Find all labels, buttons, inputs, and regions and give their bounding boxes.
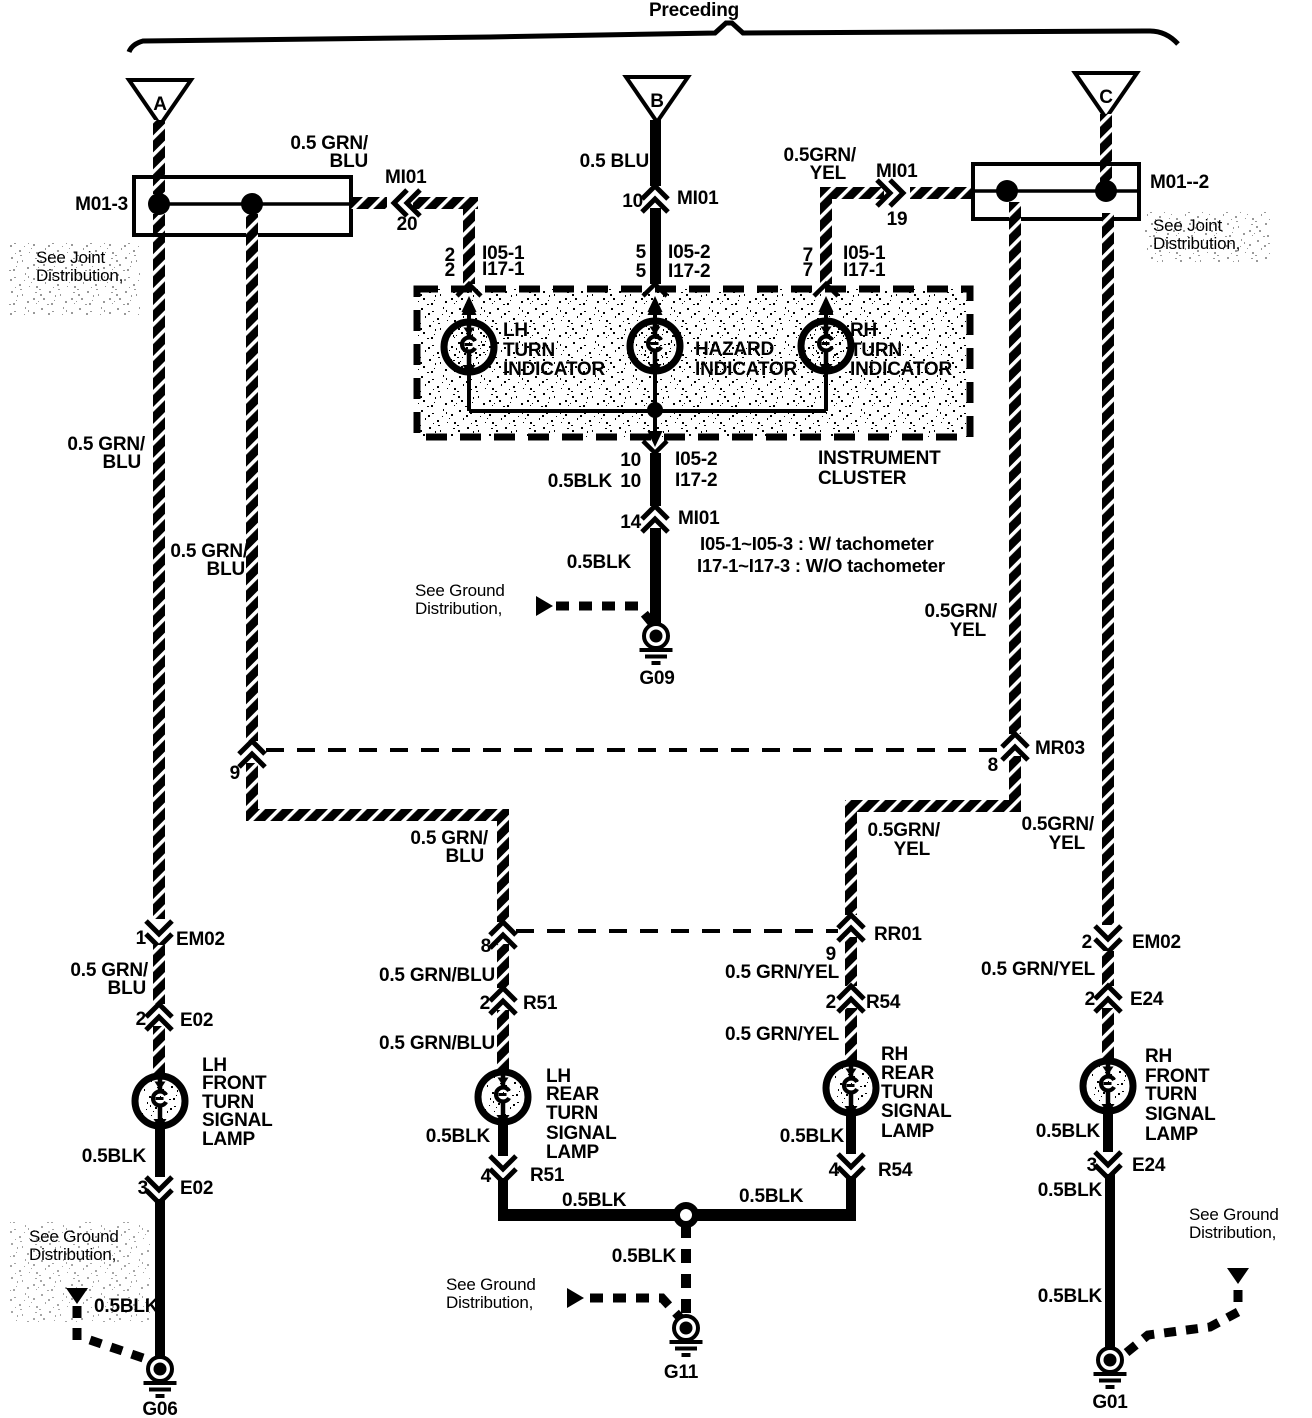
svg-text:R51: R51 <box>523 993 558 1014</box>
connector EM02 pin 2 chevrons <box>1095 926 1121 952</box>
svg-text:10: 10 <box>622 191 643 212</box>
wire horizontal corner to branch 2 <box>246 809 509 821</box>
connector MI01 pin 14 chevrons <box>642 506 668 532</box>
svg-text:LAMP: LAMP <box>1145 1124 1199 1145</box>
wire down to RR01 <box>845 800 857 915</box>
svg-text:0.5BLK: 0.5BLK <box>612 1246 677 1267</box>
lamp RH FRONT TURN SIGNAL LAMP <box>1083 1061 1133 1114</box>
svg-text:C: C <box>1099 87 1113 108</box>
junction dot inside cluster <box>647 402 663 418</box>
svg-text:19: 19 <box>887 209 908 230</box>
svg-text:M01-3: M01-3 <box>75 194 128 215</box>
wire 0.5BLK lamp to E02 pin 3 <box>155 1126 165 1177</box>
svg-text:BLU: BLU <box>207 559 245 580</box>
wire 0.5BLK to ground G01 <box>1105 1174 1115 1348</box>
branch 2: wire below chevron 8 <box>497 944 509 988</box>
connector flare into cluster at A branch <box>457 284 481 296</box>
svg-text:TURN: TURN <box>1145 1084 1197 1105</box>
svg-text:0.5BLK: 0.5BLK <box>82 1146 147 1167</box>
svg-text:Distribution,: Distribution, <box>36 266 123 285</box>
svg-text:2: 2 <box>445 260 455 281</box>
node dot M01--2 b <box>1095 180 1117 202</box>
svg-text:0.5BLK: 0.5BLK <box>548 471 613 492</box>
svg-text:See Ground: See Ground <box>446 1275 536 1294</box>
svg-text:TURN: TURN <box>881 1082 933 1103</box>
svg-text:I05-2: I05-2 <box>675 449 717 470</box>
ground G01 <box>1094 1348 1127 1387</box>
wire vertical down to instrument cluster LH turn indicator <box>463 197 475 284</box>
connector EM02 pin 1 chevrons <box>146 921 172 947</box>
svg-text:I17-1~I17-3 : W/O tachometer: I17-1~I17-3 : W/O tachometer <box>697 555 945 576</box>
arrow into cluster lamp 1 <box>462 296 477 312</box>
svg-text:SIGNAL: SIGNAL <box>546 1123 617 1144</box>
wire 0.5BLK lamp to E24 pin 3 <box>1103 1111 1113 1152</box>
branch 4: wire M01--2 dot b down <box>1102 213 1114 925</box>
svg-text:INDICATOR: INDICATOR <box>503 359 605 380</box>
svg-text:I05-1~I05-3 : W/ tachometer: I05-1~I05-3 : W/ tachometer <box>700 533 934 554</box>
svg-text:Distribution,: Distribution, <box>446 1293 533 1312</box>
connector R51 pin 4 chevrons <box>490 1156 516 1182</box>
svg-text:I17-1: I17-1 <box>482 259 525 280</box>
svg-text:EM02: EM02 <box>176 929 225 950</box>
svg-text:5: 5 <box>636 242 647 263</box>
wire down to corner <box>246 763 258 821</box>
connector chevron pin 9 MR03 left <box>239 741 265 767</box>
connector flare into cluster at B branch <box>643 284 667 296</box>
wire 0.5BLK to ground G06 <box>155 1199 165 1358</box>
svg-text:YEL: YEL <box>810 163 847 184</box>
lamp HAZARD INDICATOR <box>630 321 680 374</box>
svg-text:G11: G11 <box>664 1362 699 1383</box>
wire ground bus horizontal <box>498 1209 856 1221</box>
svg-text:See Joint: See Joint <box>36 248 106 267</box>
svg-text:MI01: MI01 <box>385 167 427 188</box>
wire A vertical 0.5 GRN/BLU from triangle A to EM02 <box>153 120 165 194</box>
wire 0.5 GRN/BLU horizontal M01-3 to MI01 <box>351 197 387 209</box>
ground G06 <box>144 1357 177 1396</box>
connector chevron pin 8 RR01 left <box>490 922 516 948</box>
svg-text:14: 14 <box>620 512 641 533</box>
wire 0.5 GRN/YEL E24 to lamp <box>1102 1008 1114 1061</box>
svg-text:R51: R51 <box>530 1165 565 1186</box>
svg-text:4: 4 <box>481 1166 492 1187</box>
svg-text:BLU: BLU <box>330 151 368 172</box>
svg-text:YEL: YEL <box>950 620 987 641</box>
svg-text:M01--2: M01--2 <box>1150 172 1209 193</box>
ground G09 <box>640 624 673 663</box>
svg-text:B: B <box>650 91 664 112</box>
svg-text:TURN: TURN <box>850 340 902 361</box>
wire horizontal right corner <box>845 800 1021 812</box>
svg-text:LAMP: LAMP <box>546 1142 600 1163</box>
svg-text:FRONT: FRONT <box>202 1073 267 1094</box>
svg-text:EM02: EM02 <box>1132 932 1181 953</box>
connector E02 pin 3 chevrons <box>146 1177 172 1203</box>
svg-text:7: 7 <box>803 260 813 281</box>
svg-text:E24: E24 <box>1130 989 1164 1010</box>
wire 0.5 GRN/YEL EM02 to E24 <box>1102 951 1114 986</box>
svg-text:0.5 GRN/BLU: 0.5 GRN/BLU <box>379 965 495 986</box>
connector triangle A <box>129 80 191 125</box>
svg-text:10: 10 <box>620 471 641 492</box>
connector R54 pin 4 chevrons <box>838 1154 864 1180</box>
svg-text:A: A <box>153 94 167 115</box>
wire 0.5 GRN/BLU R51 to lamp <box>497 1010 509 1072</box>
svg-text:0.5BLK: 0.5BLK <box>426 1126 491 1147</box>
svg-text:Distribution,: Distribution, <box>29 1245 116 1264</box>
svg-text:Preceding: Preceding <box>649 0 739 21</box>
note See Joint Distribution left <box>8 243 140 315</box>
wire 0.5BLK to bus <box>498 1178 508 1221</box>
svg-text:0.5GRN/: 0.5GRN/ <box>924 601 997 622</box>
wire M01--2 dot a down to MR03 <box>1009 202 1021 734</box>
svg-text:I17-2: I17-2 <box>675 470 717 491</box>
arrow into cluster RH turn indicator <box>819 296 834 312</box>
svg-text:8: 8 <box>481 936 491 957</box>
svg-text:SIGNAL: SIGNAL <box>202 1110 273 1131</box>
svg-text:R54: R54 <box>878 1160 913 1181</box>
joint connector M01-3 box <box>134 177 351 235</box>
svg-text:INSTRUMENT: INSTRUMENT <box>818 448 941 469</box>
svg-text:YEL: YEL <box>894 839 931 860</box>
svg-text:REAR: REAR <box>881 1063 935 1084</box>
svg-text:RH: RH <box>881 1044 908 1065</box>
wire 0.5 GRN/YEL corner to MI01 19 <box>820 187 884 199</box>
brace top <box>129 23 1178 52</box>
svg-text:0.5BLK: 0.5BLK <box>567 552 632 573</box>
svg-text:E24: E24 <box>1132 1155 1166 1176</box>
svg-text:3: 3 <box>138 1178 148 1199</box>
svg-text:G01: G01 <box>1092 1392 1128 1413</box>
connector E24 pin 3 chevrons <box>1095 1152 1121 1178</box>
connector MI01 pin 10 chevrons <box>642 186 668 212</box>
connector R54 pin 2 chevrons <box>838 986 864 1012</box>
svg-text:See Ground: See Ground <box>1189 1205 1279 1224</box>
connector E24 pin 2 chevrons <box>1095 986 1121 1012</box>
wire 0.5BLK below cluster <box>650 453 661 506</box>
svg-text:8: 8 <box>988 755 998 776</box>
svg-text:E02: E02 <box>180 1010 213 1031</box>
svg-text:See Ground: See Ground <box>29 1227 119 1246</box>
svg-text:2: 2 <box>480 993 490 1014</box>
connector chevron pin 9 RR01 <box>838 915 864 941</box>
svg-text:2: 2 <box>136 1009 146 1030</box>
svg-text:9: 9 <box>230 763 240 784</box>
wire 0.5BLK to bus <box>846 1176 856 1221</box>
svg-text:5: 5 <box>636 261 647 282</box>
connector MI01 pin 20 chevrons <box>394 190 420 216</box>
svg-text:0.5BLK: 0.5BLK <box>1036 1121 1101 1142</box>
svg-text:0.5BLK: 0.5BLK <box>562 1190 627 1211</box>
svg-text:RR01: RR01 <box>874 924 922 945</box>
svg-text:0.5 BLU: 0.5 BLU <box>580 151 649 172</box>
svg-text:I17-2: I17-2 <box>668 261 710 282</box>
connector triangle C <box>1075 73 1137 118</box>
connector triangle B <box>626 77 688 122</box>
svg-text:INDICATOR: INDICATOR <box>850 359 952 380</box>
svg-text:0.5GRN/: 0.5GRN/ <box>867 820 940 841</box>
wire dashed 0.5BLK to G11 <box>681 1224 691 1316</box>
svg-text:HAZARD: HAZARD <box>695 339 774 360</box>
wire down to chevron 8 <box>497 809 509 922</box>
svg-text:MI01: MI01 <box>678 508 720 529</box>
svg-text:0.5 GRN/YEL: 0.5 GRN/YEL <box>725 1024 840 1045</box>
svg-text:0.5BLK: 0.5BLK <box>94 1296 159 1317</box>
svg-text:SIGNAL: SIGNAL <box>1145 1104 1216 1125</box>
wire C vertical from triangle C to M01--2 <box>1100 114 1112 182</box>
wire 0.5BLK lamp to R51 pin 4 <box>498 1122 508 1156</box>
wire exit cluster down <box>653 410 657 436</box>
svg-text:TURN: TURN <box>546 1103 598 1124</box>
joint connector M01--2 box <box>973 164 1139 219</box>
arrow into cluster hazard lamp <box>648 296 663 312</box>
connector R51 pin 2 chevrons <box>490 988 516 1014</box>
svg-text:3: 3 <box>1087 1155 1097 1176</box>
svg-text:0.5BLK: 0.5BLK <box>739 1186 804 1207</box>
lamp LH TURN INDICATOR <box>444 322 494 375</box>
svg-text:I17-1: I17-1 <box>843 260 886 281</box>
svg-text:BLU: BLU <box>108 978 146 999</box>
connector flare into cluster at C branch <box>814 284 838 296</box>
svg-text:0.5GRN/: 0.5GRN/ <box>1021 814 1094 835</box>
wire 0.5 GRN/BLU EM02 to E02 <box>153 945 165 1004</box>
svg-text:RH: RH <box>850 320 877 341</box>
svg-text:RH: RH <box>1145 1046 1172 1067</box>
svg-text:2: 2 <box>1085 989 1095 1010</box>
dashed link RR01 row <box>516 929 838 933</box>
svg-text:2: 2 <box>1082 932 1092 953</box>
svg-text:See Ground: See Ground <box>415 581 505 600</box>
svg-text:BLU: BLU <box>103 452 141 473</box>
node dot M01--2 a <box>996 180 1018 202</box>
svg-text:20: 20 <box>397 214 418 235</box>
wire 0.5 GRN/BLU E02 to lamp <box>153 1026 165 1076</box>
dashed link MR03 row <box>266 748 1002 752</box>
svg-text:LAMP: LAMP <box>881 1121 935 1142</box>
svg-text:INDICATOR: INDICATOR <box>695 359 797 380</box>
connector MI01 pin 19 chevrons <box>877 180 903 206</box>
ground G11 <box>670 1316 703 1355</box>
lamp RH TURN INDICATOR <box>801 321 851 374</box>
svg-text:10: 10 <box>620 450 641 471</box>
svg-text:G06: G06 <box>142 1399 177 1418</box>
wire 0.5 GRN/BLU from M01-3 dot b down <box>246 214 258 741</box>
svg-text:1: 1 <box>136 928 147 949</box>
node dot M01-3 b <box>241 193 263 215</box>
svg-text:2: 2 <box>826 992 836 1013</box>
svg-text:YEL: YEL <box>1049 833 1086 854</box>
svg-text:R54: R54 <box>866 992 901 1013</box>
svg-text:REAR: REAR <box>546 1084 600 1105</box>
svg-text:0.5BLK: 0.5BLK <box>780 1126 845 1147</box>
branch 3: wire below RR01 <box>845 937 857 986</box>
instrument cluster box <box>417 289 970 437</box>
svg-text:0.5BLK: 0.5BLK <box>1038 1286 1103 1307</box>
svg-text:SIGNAL: SIGNAL <box>881 1101 952 1122</box>
connector E02 pin 2 chevrons <box>146 1004 172 1030</box>
svg-text:LH: LH <box>503 320 528 341</box>
wire down to right corner <box>1009 756 1021 812</box>
svg-text:Distribution,: Distribution, <box>415 599 502 618</box>
svg-text:BLU: BLU <box>446 846 484 867</box>
svg-text:LAMP: LAMP <box>202 1129 256 1150</box>
connector chevron pin 8 MR03 <box>1002 734 1028 760</box>
wire 0.5BLK lamp to R54 pin 4 <box>846 1113 856 1154</box>
note See Joint Distribution right <box>1145 212 1270 262</box>
svg-text:MI01: MI01 <box>876 161 918 182</box>
lamp LH REAR TURN SIGNAL LAMP <box>478 1072 528 1125</box>
svg-text:0.5 GRN/YEL: 0.5 GRN/YEL <box>981 959 1096 980</box>
svg-text:See Joint: See Joint <box>1153 216 1223 235</box>
svg-text:G09: G09 <box>639 668 674 689</box>
svg-text:Distribution,: Distribution, <box>1189 1223 1276 1242</box>
wire B vertical 0.5 BLU from triangle B <box>650 120 661 186</box>
svg-text:MR03: MR03 <box>1035 738 1085 759</box>
note See Ground Distribution G06 <box>10 1222 150 1322</box>
svg-text:TURN: TURN <box>503 340 555 361</box>
wire 0.5 GRN/YEL R54 to lamp <box>845 1008 857 1063</box>
junction node ring <box>677 1206 696 1225</box>
svg-text:0.5 GRN/BLU: 0.5 GRN/BLU <box>379 1033 495 1054</box>
svg-text:I05-2: I05-2 <box>668 242 710 263</box>
svg-text:4: 4 <box>829 1160 840 1181</box>
svg-text:0.5 GRN/YEL: 0.5 GRN/YEL <box>725 962 840 983</box>
wire bus inside cluster <box>467 372 471 411</box>
svg-text:0.5BLK: 0.5BLK <box>1038 1180 1103 1201</box>
svg-text:E02: E02 <box>180 1178 213 1199</box>
svg-text:Distribution,: Distribution, <box>1153 234 1240 253</box>
lamp LH FRONT TURN SIGNAL LAMP <box>135 1076 185 1129</box>
node dot M01-3 a <box>148 193 170 215</box>
lamp RH REAR TURN SIGNAL LAMP <box>826 1063 876 1116</box>
svg-text:CLUSTER: CLUSTER <box>818 468 907 489</box>
svg-text:MI01: MI01 <box>677 188 719 209</box>
